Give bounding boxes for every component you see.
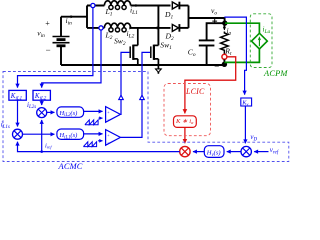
wire L1 to D1 [131,5,171,7]
wire summer3 to H_v [227,151,241,153]
svg-text:vin: vin [37,29,45,40]
wire H_iL1 to comparator2 [84,133,103,135]
wire R_t top + arrow i_a [223,23,225,28]
svg-text:iin: iin [66,16,73,27]
block H_v(s) [204,146,224,158]
block H_iL2(s) [57,107,84,117]
wire bottom rail [61,64,224,66]
green wire ACPM bottom [224,49,259,62]
wire v_ref input [254,151,268,153]
comparator 1 [106,107,121,123]
wire summer1 to H_iL1 [23,133,55,135]
svg-text:+: + [107,110,110,115]
svg-text:D1: D1 [164,10,173,21]
capacitor C_o [199,40,215,65]
node L2 sense circle [99,26,103,30]
inductor L1 [104,1,130,10]
node dot rail [222,62,227,67]
arrow i_L1 [137,5,139,7]
arrow chevron gate2 [119,95,124,99]
wire H_iL2 to comparator1 [84,110,103,112]
diode D1 [172,2,188,10]
svg-text:iL1: iL1 [130,5,138,16]
transistor Sw1 [151,45,159,65]
svg-text:iL2s: iL2s [27,101,36,110]
wire comparator2 to Sw1 gate [120,52,150,137]
block H_iL1(s) [57,129,84,139]
summer circle iL1 [13,129,23,139]
comparator 2 [106,130,121,146]
wire L2 to D2 [131,27,171,29]
ground [155,65,161,74]
transistor Sw2 [130,28,138,65]
svg-text:−: − [214,61,220,71]
svg-text:LCIC: LCIC [185,87,205,96]
ACPM dashed box [250,14,272,68]
wire comparator1 to Sw2 gate [120,52,129,114]
arrow i_L2 [130,27,132,29]
wire v_o sense to K_v [224,17,246,95]
svg-text:−: − [107,117,110,122]
svg-text:Sw2: Sw2 [114,37,126,48]
svg-text:−: − [107,140,110,145]
green wire ACPM top [225,23,259,33]
LCIC dashed box [164,84,211,136]
svg-text:vo: vo [211,6,217,17]
svg-text:ACMC: ACMC [58,162,83,171]
node i_ref junction [40,150,43,153]
wire sense iL2 [42,30,101,88]
sawtooth 1 [85,120,98,125]
svg-text:iL1s: iL1s [1,121,10,130]
svg-text:+: + [107,133,110,138]
wire input split vertical [86,6,88,28]
wire L1 branch [87,5,104,7]
wire R_t bottom [223,59,225,65]
wire K_iL2 to summer 2 [41,100,43,105]
ACMC dashed border [3,72,289,162]
label + output [212,19,217,24]
svg-text:iL2: iL2 [127,29,135,40]
battery v_in [53,17,70,65]
block K_iL1 [9,90,26,100]
svg-text:+: + [45,19,50,28]
arrow i_in [72,16,74,18]
red sense wire from R_t [185,57,236,114]
svg-text:Sw1: Sw1 [160,41,172,52]
inductor L2 [104,23,130,32]
current source i_La diamond [252,33,268,49]
block k*i_a [174,116,197,128]
wire diode cathode junction vertical [188,6,190,28]
svg-text:−: − [45,45,51,55]
wire switch-node vertical [157,6,159,46]
arrow into D2 node [158,27,160,29]
sawtooth 2 [83,142,96,147]
wire K_v to summer3 [244,106,246,143]
block K_v [241,98,252,106]
wire output node horizontal [189,18,225,23]
svg-text:iLa: iLa [263,26,271,35]
svg-text:vref: vref [270,146,279,155]
node dot output [222,20,227,25]
arrow chevron gate1 [140,95,145,99]
block K_iL2 [33,90,50,100]
resistor R_t zigzag [221,32,229,55]
wire summer2 to H_iL2 [47,111,55,113]
wire sense iL1 [18,8,93,88]
wire feedback i_ref [18,142,180,152]
svg-text:vD: vD [250,133,257,142]
svg-text:Co: Co [188,48,196,59]
wire i_ref branch to summer2 [41,120,43,152]
node red sense circle [222,54,227,59]
svg-text:iref: iref [45,142,52,149]
red summer circle [180,146,190,156]
wire k*i_a to red summer [184,127,186,143]
summer circle 3 [241,146,251,156]
wire C_o branch [207,23,225,40]
svg-text:ACPM: ACPM [263,69,288,78]
summer circle iL2 [37,108,47,118]
node L1 sense circle [91,3,95,7]
wire L2 branch [87,27,104,29]
wire battery top feed [61,16,87,18]
wire K_iL1 to summer 1 [17,100,19,126]
diode D2 [172,24,188,32]
wire H_v to red summer [193,151,204,153]
